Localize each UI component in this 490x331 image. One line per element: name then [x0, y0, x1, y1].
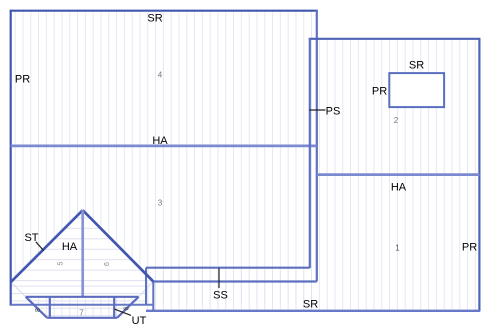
svg-text:PR: PR — [462, 242, 477, 254]
svg-text:SR: SR — [303, 299, 318, 311]
dormer rect border — [389, 73, 444, 107]
left building left edge — [10, 10, 12, 306]
svg-text:2: 2 — [394, 116, 399, 125]
ridge HA right — [317, 173, 480, 176]
triangle hatch — [11, 210, 154, 282]
svg-text:SR: SR — [147, 13, 162, 25]
left building top edge — [10, 10, 318, 12]
wing left vertical — [145, 268, 147, 305]
ridge HA left — [11, 145, 317, 148]
right building right edge — [478, 38, 480, 311]
gable ridge vertical — [81, 210, 84, 297]
right building left edge (node A) — [309, 39, 311, 269]
gable left slope — [11, 210, 83, 282]
svg-text:7: 7 — [79, 309, 84, 318]
roof area 4+3 hatch (left building) — [11, 10, 317, 305]
svg-text:5: 5 — [58, 261, 65, 265]
canopy inner vertical right — [113, 297, 115, 318]
gable right slope — [83, 210, 154, 281]
canopy left slant — [26, 297, 47, 318]
ST tick — [36, 242, 44, 251]
wing mid line — [153, 280, 316, 282]
trapezoid hatch — [26, 297, 139, 318]
svg-text:6: 6 — [124, 306, 131, 310]
wing top line — [146, 267, 310, 269]
canopy bottom — [47, 317, 117, 319]
svg-text:HA: HA — [152, 135, 168, 147]
PS tick — [309, 109, 325, 111]
dormer white rect interior — [389, 73, 444, 107]
svg-text:UT: UT — [132, 315, 147, 327]
left building bottom edge — [11, 304, 154, 306]
right building top edge — [309, 38, 481, 40]
faint valley line left — [11, 282, 26, 297]
svg-text:4: 4 — [158, 71, 163, 80]
svg-text:HA: HA — [62, 241, 78, 253]
canopy inner vertical left — [49, 297, 51, 318]
canopy top — [26, 296, 139, 298]
SS tick — [218, 268, 220, 288]
UT tick — [114, 309, 131, 315]
svg-text:PS: PS — [326, 106, 341, 118]
svg-text:SS: SS — [213, 290, 228, 302]
roof area 1+2 hatch (right building) — [310, 39, 480, 312]
svg-text:HA: HA — [391, 182, 407, 194]
svg-text:PR: PR — [15, 74, 30, 86]
wing SS hatch — [146, 268, 317, 312]
wing inner vertical — [152, 282, 154, 311]
svg-text:6: 6 — [104, 262, 111, 266]
svg-text:3: 3 — [158, 199, 163, 208]
svg-text:PR: PR — [372, 86, 387, 98]
left building right edge (node B) — [316, 10, 318, 282]
eaves strip white under triangle — [11, 282, 146, 306]
svg-text:SR: SR — [409, 60, 424, 72]
bottom eave line long — [146, 310, 480, 312]
svg-text:ST: ST — [24, 232, 38, 244]
svg-text:8: 8 — [35, 308, 42, 312]
faint valley line right — [139, 282, 154, 297]
svg-text:1: 1 — [395, 244, 400, 253]
eaves strip horizontal hatch — [11, 282, 146, 306]
canopy right slant — [117, 297, 139, 318]
